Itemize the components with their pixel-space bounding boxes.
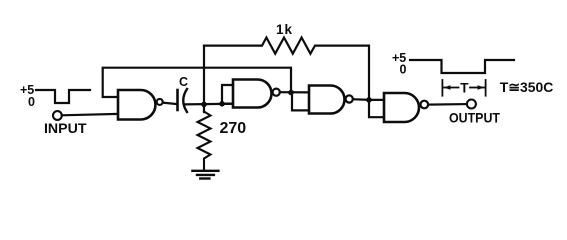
svg-text:OUTPUT: OUTPUT xyxy=(449,111,501,126)
svg-text:0: 0 xyxy=(400,63,407,77)
svg-text:1k: 1k xyxy=(276,22,293,37)
svg-text:T≅350C: T≅350C xyxy=(500,80,554,95)
svg-text:0: 0 xyxy=(28,95,35,109)
svg-text:C: C xyxy=(179,75,188,89)
svg-text:270: 270 xyxy=(220,120,247,137)
svg-text:T: T xyxy=(460,80,469,95)
svg-text:INPUT: INPUT xyxy=(44,121,87,136)
